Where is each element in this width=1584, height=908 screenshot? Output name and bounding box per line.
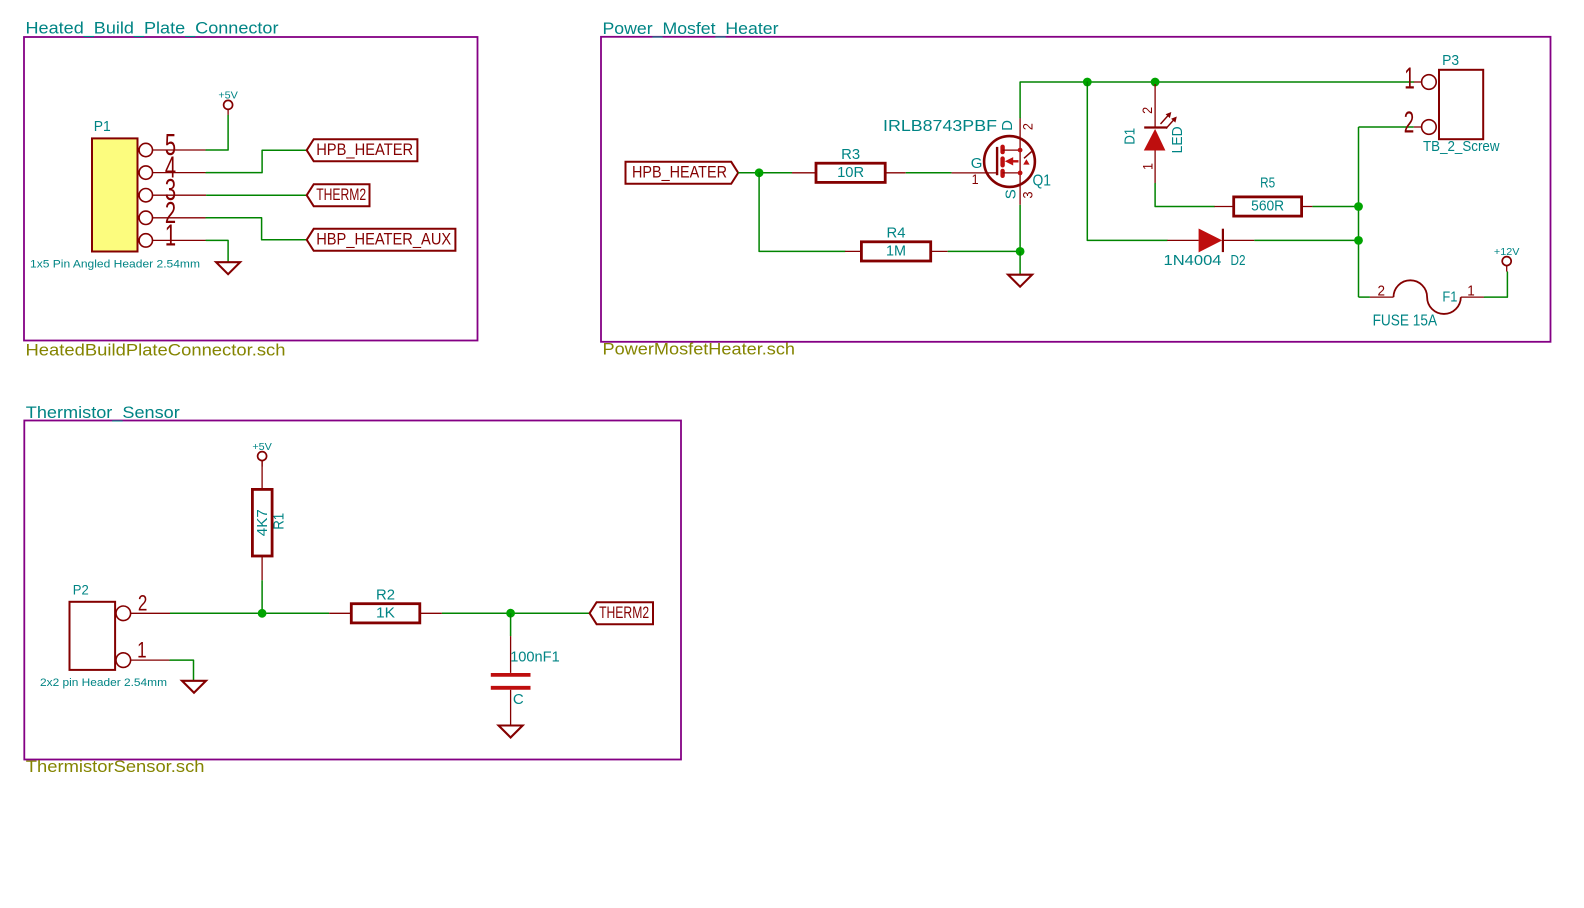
diode D2 1N4004 (1164, 229, 1255, 269)
wire R5 to right rail (1312, 206, 1358, 208)
svg-text:R2: R2 (376, 587, 395, 604)
wire label to R3 (738, 172, 792, 174)
junction (1354, 236, 1363, 245)
wire pin3 to THERM2 (206, 194, 307, 196)
svg-text:R4: R4 (887, 225, 906, 242)
pin left of R5 (1214, 206, 1233, 208)
pin 1 of P1 (139, 217, 206, 252)
junction (1016, 247, 1025, 256)
svg-text:1K: 1K (376, 605, 395, 621)
wire R2 to THERM2 (442, 612, 590, 614)
svg-text:G: G (971, 155, 983, 172)
ground (216, 262, 240, 274)
svg-text:2x2 pin Header 2.54mm: 2x2 pin Header 2.54mm (40, 677, 167, 689)
svg-text:TB_2_Screw: TB_2_Screw (1423, 139, 1500, 155)
svg-text:R1: R1 (272, 513, 288, 530)
connector P1 body (30, 118, 200, 271)
wire pin1 to ground (206, 240, 228, 262)
sheet Thermistor_Sensor (24, 421, 681, 760)
resistor R2 (351, 587, 420, 623)
svg-text:1N4004: 1N4004 (1164, 252, 1222, 269)
resistor R1 (252, 461, 287, 581)
junction (1354, 202, 1363, 211)
svg-text:P3: P3 (1442, 52, 1459, 69)
svg-text:2: 2 (1019, 123, 1035, 130)
svg-text:S: S (1003, 189, 1020, 199)
junction (1083, 78, 1092, 87)
pin right of R3 (885, 172, 906, 174)
junction (258, 609, 267, 618)
svg-text:P2: P2 (73, 583, 89, 598)
svg-text:2: 2 (1404, 104, 1415, 139)
fuse F1 (1370, 280, 1485, 329)
global label HPB_HEATER (626, 162, 739, 184)
svg-text:10R: 10R (837, 165, 864, 181)
wire pin4 to HPB_HEATER (206, 150, 307, 172)
pin 3 of P1 (139, 172, 206, 207)
svg-text:D2: D2 (1231, 252, 1246, 269)
ground (1008, 275, 1032, 287)
svg-text:HPB_HEATER: HPB_HEATER (316, 140, 413, 159)
svg-text:D1: D1 (1122, 128, 1139, 145)
global label HPB_HEATER (307, 139, 418, 161)
connector P2 body (40, 583, 167, 690)
svg-text:1: 1 (972, 171, 979, 187)
capacitor C 100nF1 (491, 636, 560, 725)
svg-text:+5V: +5V (218, 90, 238, 102)
pin 1 of P2 (116, 637, 170, 667)
power +12V (1494, 246, 1520, 272)
transistor Q1 IRLB8743PBF (883, 118, 1051, 205)
svg-text:THERM2: THERM2 (316, 185, 366, 204)
pin left of R3 (792, 172, 816, 174)
power +5V (218, 90, 238, 116)
LED D1 (1122, 84, 1186, 184)
junction (506, 609, 515, 618)
svg-text:LED: LED (1169, 126, 1186, 153)
pin right of R2 (420, 612, 442, 614)
wire source to ground (1019, 251, 1021, 274)
svg-text:PowerMosfetHeater.sch: PowerMosfetHeater.sch (603, 340, 796, 358)
wire source down (1019, 205, 1021, 252)
wire pin2 to HBP_HEATER_AUX (206, 218, 307, 240)
svg-text:ThermistorSensor.sch: ThermistorSensor.sch (26, 758, 205, 776)
svg-text:1: 1 (1404, 61, 1415, 96)
global label THERM2 (590, 602, 653, 624)
pin 4 of P1 (139, 150, 206, 185)
pin 2 of P2 (116, 590, 170, 620)
svg-text:100nF1: 100nF1 (510, 649, 560, 666)
svg-text:3: 3 (1019, 191, 1035, 198)
svg-text:1: 1 (1140, 163, 1156, 170)
svg-text:1: 1 (1467, 283, 1475, 300)
wire node row (170, 612, 329, 614)
resistor R3 (816, 146, 885, 182)
svg-text:2: 2 (1139, 107, 1155, 114)
svg-text:HPB_HEATER: HPB_HEATER (632, 163, 727, 182)
ground (182, 681, 206, 693)
resistor R5 (1234, 175, 1302, 217)
pin left of R2 (329, 612, 351, 614)
svg-text:FUSE 15A: FUSE 15A (1373, 313, 1438, 330)
wire pin1 to ground (170, 660, 194, 681)
svg-text:Thermistor_Sensor: Thermistor_Sensor (26, 403, 180, 422)
sheet Power_Mosfet_Heater (601, 37, 1551, 342)
wire rail to P3 pin2 (1359, 126, 1414, 128)
wire R3 to gate (906, 172, 952, 174)
svg-text:P1: P1 (94, 118, 111, 135)
sheet Heated_Build_Plate_Connector (24, 37, 478, 341)
wire node to capacitor (510, 613, 512, 636)
pin right of R4 (931, 250, 948, 252)
svg-text:IRLB8743PBF: IRLB8743PBF (883, 118, 997, 135)
connector P3 TB_2_Screw (1423, 52, 1500, 155)
wire R1 to node (261, 580, 263, 613)
wire R4 to source node (948, 250, 1020, 252)
wire fuse to +12V (1484, 272, 1507, 297)
pin 2 of P3 (1404, 104, 1436, 139)
svg-text:R5: R5 (1260, 175, 1275, 192)
power +5V (252, 441, 272, 467)
svg-text:HBP_HEATER_AUX: HBP_HEATER_AUX (316, 230, 451, 249)
global label THERM2 (307, 184, 370, 206)
resistor R4 (861, 225, 930, 261)
svg-text:Heated_Build_Plate_Connector: Heated_Build_Plate_Connector (26, 19, 279, 38)
pin 5 of P1 (139, 127, 206, 162)
junction (1151, 78, 1160, 87)
svg-text:Power_Mosfet_Heater: Power_Mosfet_Heater (603, 19, 779, 38)
ground (499, 726, 523, 738)
pin 2 of P1 (139, 195, 206, 230)
svg-text:2: 2 (138, 590, 148, 615)
wire D2 to right rail (1254, 239, 1358, 241)
svg-text:D: D (999, 120, 1016, 131)
svg-text:1: 1 (137, 637, 147, 662)
svg-text:+12V: +12V (1494, 246, 1520, 258)
svg-text:4K7: 4K7 (255, 509, 271, 536)
wire D1 to R5 (1155, 184, 1214, 207)
global label HBP_HEATER_AUX (307, 229, 456, 251)
pin 1 of P3 (1404, 61, 1436, 96)
svg-text:1: 1 (165, 217, 176, 252)
wire right rail vertical (1358, 127, 1360, 297)
wire rail to fuse (1359, 296, 1370, 298)
svg-text:HeatedBuildPlateConnector.sch: HeatedBuildPlateConnector.sch (26, 342, 286, 360)
wire branch down to R4 (759, 173, 845, 252)
svg-text:R3: R3 (841, 146, 860, 163)
svg-text:1x5 Pin Angled Header 2.54mm: 1x5 Pin Angled Header 2.54mm (30, 259, 200, 271)
svg-text:THERM2: THERM2 (599, 603, 649, 622)
svg-text:Q1: Q1 (1033, 173, 1052, 190)
pin left of R4 (845, 250, 861, 252)
svg-text:560R: 560R (1251, 199, 1284, 215)
wire bus drop to D2 row (1087, 82, 1167, 240)
svg-text:1M: 1M (886, 243, 906, 259)
svg-text:+5V: +5V (252, 441, 272, 453)
wire drain up to bus (1020, 82, 1414, 118)
svg-text:F1: F1 (1442, 289, 1457, 305)
svg-text:C: C (513, 691, 524, 708)
svg-text:2: 2 (1378, 283, 1386, 300)
wire +5V drop (206, 115, 228, 150)
pin right of R5 (1302, 206, 1313, 208)
junction (755, 168, 764, 177)
